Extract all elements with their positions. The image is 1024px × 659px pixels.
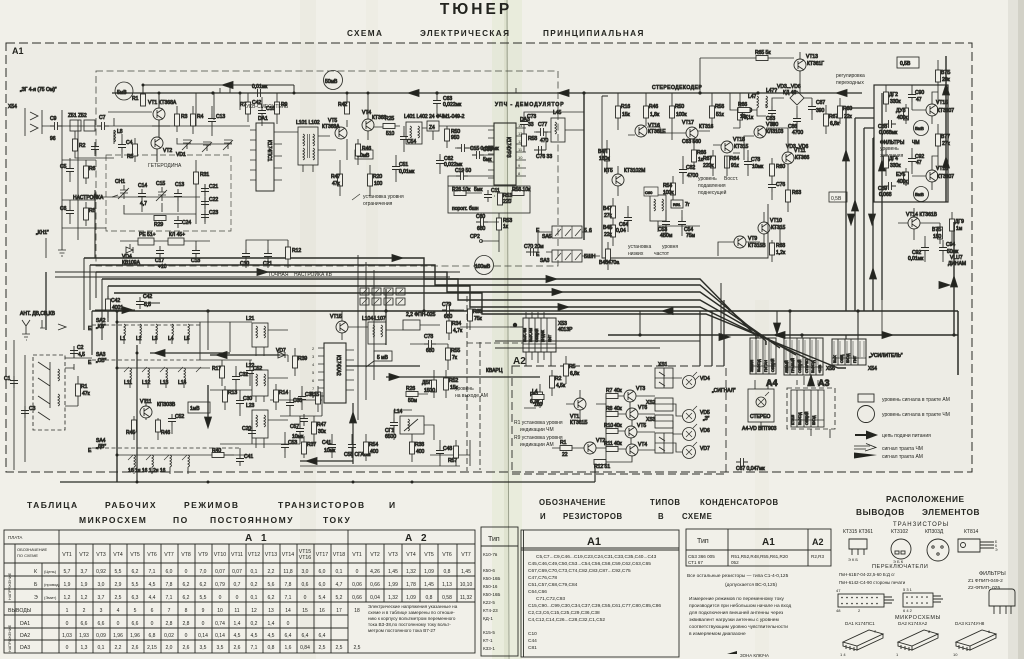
svg-text:R1: R1 (132, 96, 139, 102)
svg-text:2: 2 (83, 608, 86, 614)
svg-text:К: К (34, 569, 37, 575)
svg-text:ПкН-61Б7-04-22,5-60 Б:Д сг: ПкН-61Б7-04-22,5-60 Б:Д сг (839, 572, 895, 577)
svg-text:100: 100 (374, 181, 383, 187)
svg-text:ТЮНЕР: ТЮНЕР (440, 1, 512, 18)
svg-text:C2: C2 (77, 345, 84, 351)
transistor KT814 drawing (958, 539, 994, 552)
svg-text:Э: Э (34, 595, 38, 601)
svg-text:0,14: 0,14 (215, 633, 225, 639)
wire in filter box upper (886, 60, 938, 124)
svg-text:ЭЛЕМЕНТОВ: ЭЛЕМЕНТОВ (922, 507, 980, 517)
svg-text:В: В (658, 512, 664, 521)
svg-text:ДГ2: ДГ2 (889, 92, 898, 98)
svg-text:2,9: 2,9 (115, 582, 122, 588)
svg-text:„СИГНАЛ”: „СИГНАЛ” (712, 388, 736, 394)
row ВЫВОДЫ numbers (66, 608, 360, 614)
svg-text:1м: 1м (956, 226, 963, 232)
svg-text:C7: C7 (99, 115, 106, 121)
svg-text:VT4: VT4 (362, 110, 371, 116)
trimmer L13 (166, 368, 168, 380)
wire a2 top links (510, 312, 544, 327)
svg-text:В4Л: В4Л (598, 149, 607, 155)
svg-text:VT15: VT15 (330, 314, 342, 320)
wire (70, 158, 86, 226)
svg-text:48: 48 (836, 608, 841, 613)
svg-text:400: 400 (416, 449, 425, 455)
svg-text:ПИТ: ПИТ (548, 334, 552, 342)
svg-text:ЗЕМЛЯ: ЗЕМЛЯ (750, 359, 754, 372)
capacitor C94 (939, 243, 947, 255)
resistor R45b (132, 420, 137, 432)
svg-text:R67: R67 (829, 114, 838, 120)
wire (440, 126, 494, 186)
legend arrow ЧМ (854, 444, 876, 452)
arrow down risers 2 (869, 214, 876, 225)
svg-text:VT4: VT4 (113, 552, 123, 558)
IC DA2 drawing (898, 630, 938, 650)
capacitor C48 (436, 446, 444, 458)
svg-text:1,99: 1,99 (388, 582, 398, 588)
wire (134, 400, 172, 440)
capacitor C54 (400, 132, 408, 144)
resistor R34b (447, 321, 452, 333)
svg-text:Б: Б (34, 582, 38, 588)
svg-text:A1: A1 (12, 46, 24, 56)
junction dots y335 (638, 333, 955, 336)
wire: strip feed verticals (758, 311, 858, 339)
svg-text:7,1: 7,1 (251, 645, 258, 651)
wire stub left (45, 238, 47, 258)
capacitor C53d (662, 217, 670, 229)
svg-text:К10-7в: К10-7в (483, 552, 498, 557)
svg-text:6,6: 6,6 (81, 621, 88, 627)
svg-text:0,7: 0,7 (234, 582, 241, 588)
transistor VT3a2 (624, 390, 636, 402)
svg-text:VT10: VT10 (214, 552, 227, 558)
svg-text:VT10: VT10 (770, 218, 782, 224)
svg-text:2,6: 2,6 (132, 645, 139, 651)
svg-text:L2: L2 (136, 336, 142, 342)
svg-text:КТ361Г: КТ361Г (807, 61, 824, 67)
resistor R42c (106, 299, 111, 311)
wire (170, 106, 232, 136)
resistor R35 (468, 309, 473, 321)
DA2 pins left (318, 348, 354, 396)
wire (347, 93, 404, 165)
svg-text:КТ814: КТ814 (964, 529, 979, 535)
wire (764, 212, 780, 262)
svg-text:0: 0 (185, 569, 188, 575)
svg-text:R12: R12 (292, 248, 301, 254)
svg-text:R64: R64 (730, 156, 739, 162)
svg-text:К33-1: К33-1 (483, 646, 495, 651)
svg-text:ВЫХОД: ВЫХОД (811, 360, 815, 373)
svg-text:КП303Д: КП303Д (925, 529, 944, 535)
capacitor C70 (526, 248, 538, 256)
capacitor C6t (66, 206, 74, 218)
svg-text:C81: C81 (528, 645, 537, 651)
IC DA2 К174УР3 (494, 123, 516, 185)
svg-text:VD7: VD7 (276, 348, 286, 354)
capacitor C76b (768, 180, 776, 192)
svg-text:470а: 470а (608, 260, 619, 266)
svg-text:11,8: 11,8 (283, 569, 293, 575)
svg-text:DA3 К174УН8: DA3 К174УН8 (955, 621, 985, 626)
resistor ДГ3 (904, 108, 909, 120)
resistor В4Л (605, 149, 610, 161)
wire e-boxes (526, 232, 600, 256)
svg-text:КТ315: КТ315 (734, 144, 749, 150)
svg-text:160к: 160к (599, 156, 610, 162)
transistor KT315 drawing (849, 539, 867, 555)
svg-text:VT2: VT2 (370, 552, 380, 558)
svg-text:0,84: 0,84 (300, 645, 310, 651)
svg-text:47: 47 (916, 160, 922, 166)
resistor В45 (606, 249, 611, 261)
svg-text:ТИПОВ: ТИПОВ (650, 498, 681, 507)
capacitor C?41 (236, 454, 244, 466)
svg-text:R8: R8 (606, 406, 613, 412)
svg-text:470: 470 (540, 138, 549, 144)
resistor R?40 (212, 453, 224, 458)
svg-text:0,02: 0,02 (164, 633, 174, 639)
varicap block CH1 (118, 185, 129, 199)
row DA3 values (66, 645, 361, 651)
svg-text:CH1: CH1 (115, 179, 125, 185)
svg-text:10к: 10к (740, 114, 749, 120)
switch dashed box left (33, 355, 65, 430)
svg-text:1,32: 1,32 (388, 595, 398, 601)
resistor R2 (73, 139, 78, 151)
svg-text:ПЛАТА: ПЛАТА (8, 535, 22, 540)
svg-text:1,8к: 1,8к (650, 112, 660, 118)
wire: A2 feed verticals (700, 300, 724, 366)
junction dots bottom wire (136, 481, 414, 484)
IF transformer small (406, 122, 422, 144)
svg-text:R2: R2 (79, 143, 86, 149)
wire (436, 93, 438, 114)
wire input chain (42, 118, 152, 144)
svg-text:ГЕТЕРОДИНА: ГЕТЕРОДИНА (148, 163, 182, 169)
svg-text:2,8: 2,8 (183, 621, 190, 627)
svg-text:ТОЧНАЯ: ТОЧНАЯ (268, 272, 289, 278)
svg-text:X54: X54 (868, 366, 877, 372)
legend arrow power (855, 434, 867, 436)
svg-text:эквивалент нагрузки антенны: эквивалент нагрузки антенны с уровнем (689, 618, 779, 623)
wire (117, 322, 200, 344)
svg-text:ПО: ПО (173, 515, 189, 525)
junction dots on buses (115, 309, 859, 336)
dashed partition x=467 (466, 296, 468, 471)
ladder C21 (201, 184, 209, 196)
svg-text:10: 10 (217, 608, 223, 614)
svg-text:АНТ. ДВ,СВ,КВ: АНТ. ДВ,СВ,КВ (20, 311, 56, 317)
svg-text:КВ109А: КВ109А (122, 260, 141, 266)
arrow down (774, 323, 781, 334)
svg-text:VT5: VT5 (130, 552, 140, 558)
svg-text:C14: C14 (138, 183, 147, 189)
wire am grid fill (200, 322, 322, 444)
svg-text:ЕУ5: ЕУ5 (896, 172, 906, 178)
svg-text:КТ361Б: КТ361Б (570, 420, 588, 426)
svg-text:ПЕРЕКЛЮЧАТЕЛИ: ПЕРЕКЛЮЧАТЕЛИ (872, 564, 928, 570)
capacitor C77 (536, 128, 548, 136)
svg-text:50мВ: 50мВ (325, 79, 338, 85)
svg-text:VT11: VT11 (231, 552, 243, 558)
svg-text:Тип: Тип (697, 538, 709, 545)
svg-text:C70 20м: C70 20м (524, 244, 544, 250)
resistor R60c (838, 106, 843, 118)
switch drawing 1 (838, 594, 884, 607)
transistor VT15d (612, 174, 624, 186)
transistor VT13 top (794, 59, 806, 71)
svg-text:C4,C12,C14,C26...C28,C32,C1,C5: C4,C12,C14,C26...C28,C32,C1,C52 (528, 617, 605, 623)
svg-text:VT9: VT9 (198, 552, 208, 558)
svg-text:4: 4 (117, 608, 120, 614)
svg-text:33: 33 (528, 122, 534, 128)
svg-text:0,5В: 0,5В (900, 61, 911, 67)
svg-text:БШН: БШН (584, 254, 596, 260)
transistor VT8 (754, 126, 766, 138)
svg-text:0,8: 0,8 (444, 569, 451, 575)
svg-text:DA1: DA1 (258, 116, 268, 122)
resistor R29 (154, 216, 166, 221)
junction (142, 84, 296, 95)
resistor R46c (156, 420, 161, 432)
svg-text:40к: 40к (614, 423, 623, 429)
svg-text:16: 16 (319, 608, 325, 614)
wire (410, 344, 448, 398)
row Б values (64, 582, 473, 588)
wire (143, 85, 294, 162)
svg-text:R25: R25 (385, 116, 394, 122)
resistor R26b (406, 392, 418, 397)
wire (246, 240, 288, 268)
svg-text:(Цепь): (Цепь) (44, 569, 57, 574)
wire (454, 302, 470, 330)
varicap VD3 (223, 140, 233, 150)
svg-text:„УСИЛИТЕЛЬ”: „УСИЛИТЕЛЬ” (869, 353, 903, 359)
svg-text:ДГ4: ДГ4 (889, 156, 898, 162)
svg-text:160: 160 (534, 402, 543, 408)
svg-text:ЧМ: ЧМ (912, 140, 920, 146)
svg-text:C78: C78 (424, 334, 433, 340)
svg-text:C64,C66: C64,C66 (528, 589, 547, 595)
svg-text:ВХОД: ВХОД (846, 353, 850, 363)
svg-text:поднесущей: поднесущей (698, 189, 727, 196)
arrow right (389, 374, 400, 381)
connector strip group 2 (784, 338, 823, 375)
svg-text:CP2: CP2 (470, 234, 480, 240)
wire (248, 93, 277, 126)
svg-text:0,66: 0,66 (370, 582, 380, 588)
svg-text:РАБОЧИХ: РАБОЧИХ (105, 500, 157, 510)
svg-text:В47: В47 (603, 206, 612, 212)
wire top am (95, 296, 160, 318)
trimmer row3 L18 (188, 455, 190, 467)
capacitor C78 (424, 340, 436, 348)
box KL45 (168, 238, 184, 245)
svg-text:1,78: 1,78 (406, 582, 416, 588)
svg-text:ВЫВОДОВ: ВЫВОДОВ (856, 507, 905, 517)
svg-text:5,5: 5,5 (200, 595, 207, 601)
svg-text:2,6: 2,6 (183, 645, 190, 651)
trimmer row3 L17 (170, 455, 172, 467)
svg-text:0: 0 (356, 569, 359, 575)
LED VD7 (683, 446, 696, 459)
wire led links (673, 378, 682, 452)
resistor R12 (286, 247, 291, 259)
svg-text:VT2: VT2 (79, 552, 89, 558)
capacitor C62 (436, 156, 444, 168)
svg-text:R65 5к: R65 5к (755, 50, 771, 56)
svg-text:R55: R55 (451, 348, 460, 354)
svg-text:510: 510 (386, 131, 395, 137)
subtle crease right-center (755, 300, 769, 659)
resistor R4 (191, 114, 196, 126)
capacitor C15c (457, 144, 469, 152)
wire bottom thick left arrow (300, 460, 353, 462)
svg-text:R50: R50 (675, 104, 684, 110)
svg-text:ОБЩИЙ: ОБЩИЙ (798, 359, 802, 373)
svg-text:C90: C90 (915, 90, 924, 96)
svg-text:1,96: 1,96 (130, 633, 140, 639)
capacitor C52c (246, 366, 254, 378)
svg-text:3,7: 3,7 (98, 595, 105, 601)
resistor R51 (498, 193, 503, 205)
svg-text:L22: L22 (246, 363, 255, 369)
svg-text:МИКРОСХЕМ: МИКРОСХЕМ (79, 515, 147, 525)
svg-text:КОНДЕНСАТОРОВ: КОНДЕНСАТОРОВ (700, 498, 779, 507)
svg-text:ТРАНЗИСТОРЫ: ТРАНЗИСТОРЫ (893, 522, 949, 528)
svg-text:X55: X55 (826, 366, 835, 372)
capacitor C42d (136, 297, 144, 309)
svg-text:C2,C3,C6,C15,C25,C29,C36,C38: C2,C3,C6,C15,C25,C29,C36,C38 (528, 610, 600, 616)
capacitor C24 (174, 216, 182, 228)
svg-text:C47,C76,C78: C47,C76,C78 (528, 575, 557, 581)
capacitor C73 (520, 117, 528, 129)
svg-text:КТ4-23: КТ4-23 (483, 608, 498, 613)
wire (65, 346, 92, 406)
svg-text:1,03: 1,03 (62, 633, 72, 639)
capacitor C11b (484, 190, 492, 202)
left column cluster: wire (62, 110, 106, 250)
svg-text:порогг. бшн: порогг. бшн (452, 206, 479, 212)
svg-text:C33: C33 (293, 398, 302, 404)
svg-text:1,2: 1,2 (64, 595, 71, 601)
svg-text:6500: 6500 (385, 434, 396, 440)
subtle crease left-center (300, 0, 316, 659)
svg-text:VT9: VT9 (748, 236, 757, 242)
inductor L4a2 (532, 395, 544, 400)
svg-text:К22-5: К22-5 (483, 600, 495, 605)
filter Z2,2 (403, 320, 420, 330)
svg-text:C13: C13 (175, 182, 184, 188)
svg-text:VD4: VD4 (700, 376, 710, 382)
svg-text:метром постоянного тока В7-: метром постоянного тока В7-27 (368, 628, 436, 633)
svg-text:L47?: L47? (766, 88, 777, 94)
resistor ДГ5 (904, 172, 909, 184)
svg-text:VT1: VT1 (62, 552, 72, 558)
wire a4 (755, 380, 768, 428)
svg-text:К50-16Б: К50-16Б (483, 592, 500, 597)
scan tint over schematic area (6, 43, 972, 472)
arrow down big (207, 385, 209, 425)
svg-text:А 2: А 2 (405, 533, 430, 544)
svg-text:уровня: уровня (662, 244, 678, 250)
svg-text:ОБОЗНАЧЕНИЕ: ОБОЗНАЧЕНИЕ (539, 498, 606, 507)
svg-text:0: 0 (117, 621, 120, 627)
A1 column dividers (75, 544, 77, 653)
svg-text:R10: R10 (604, 423, 613, 429)
ground symbol left (58, 250, 66, 256)
svg-text:R2,R3: R2,R3 (811, 554, 824, 559)
inner dashed box (varicap block) (106, 155, 231, 231)
svg-text:C5: C5 (60, 164, 67, 170)
svg-text:6,2: 6,2 (268, 595, 275, 601)
varicap VD1 (182, 140, 192, 150)
svg-text:СТ1 67: СТ1 67 (688, 560, 703, 565)
legend arrow АМ (854, 453, 877, 459)
svg-text:15: 15 (302, 608, 308, 614)
svg-text:3,5: 3,5 (200, 645, 207, 651)
svg-text:VT6: VT6 (442, 552, 452, 558)
svg-text:6,2: 6,2 (200, 582, 207, 588)
capacitor C18 (192, 246, 200, 258)
svg-text:L12: L12 (142, 380, 151, 386)
svg-text:сигнал тракта ЧМ: сигнал тракта ЧМ (882, 446, 923, 452)
connector XS1 (655, 368, 673, 388)
svg-text:1,2: 1,2 (81, 595, 88, 601)
svg-text:4700: 4700 (687, 173, 698, 179)
junction cross (513, 323, 517, 327)
svg-text:ПОСТОЯННОМУ: ПОСТОЯННОМУ (210, 515, 294, 525)
svg-text:C15,C90...C99,C30,C34,C37,C39,: C15,C90...C99,C30,C34,C37,C39,C55,C61,C7… (528, 603, 661, 609)
wire: shielded pair left y=272 (55, 272, 460, 277)
transistor KP303 drawing (circle with pins) (927, 539, 949, 561)
svg-text:4,26: 4,26 (370, 569, 380, 575)
wire (422, 126, 494, 140)
svg-text:96: 96 (50, 136, 56, 142)
svg-text:0: 0 (185, 633, 188, 639)
row DA2 values (62, 633, 326, 639)
callout 0,5V box right (829, 192, 847, 202)
svg-text:13: 13 (268, 608, 274, 614)
svg-text:Восст.: Восст. (724, 176, 738, 182)
transformer L464 (650, 195, 666, 221)
svg-text:R4: R4 (197, 114, 204, 120)
wire (515, 88, 517, 93)
svg-text:ФИЛЬТРЫ: ФИЛЬТРЫ (979, 571, 1006, 577)
svg-text:1,96: 1,96 (113, 633, 123, 639)
resistor R14 (274, 390, 279, 402)
svg-text:VT12: VT12 (248, 552, 261, 558)
svg-text:C42: C42 (111, 298, 120, 304)
diode bridge diamond (790, 91, 804, 105)
svg-text:680: 680 (426, 348, 435, 354)
svg-text:VT4: VT4 (406, 552, 416, 558)
capacitor C4t (118, 140, 126, 152)
svg-text:5 3 1: 5 3 1 (903, 587, 913, 592)
transistor VT2a2 (584, 442, 596, 454)
svg-text:C1: C1 (4, 376, 11, 382)
arrow right on y335 (882, 332, 893, 339)
svg-text:6: 6 (151, 608, 154, 614)
svg-text:C5,C7...C9,C46...C19,C23,C24,C: C5,C7...C9,C46...C19,C23,C24,C31,C33,C35… (536, 554, 657, 560)
svg-text:VT13: VT13 (806, 54, 818, 60)
svg-text:6,6: 6,6 (132, 621, 139, 627)
capacitor C52b (168, 414, 176, 426)
